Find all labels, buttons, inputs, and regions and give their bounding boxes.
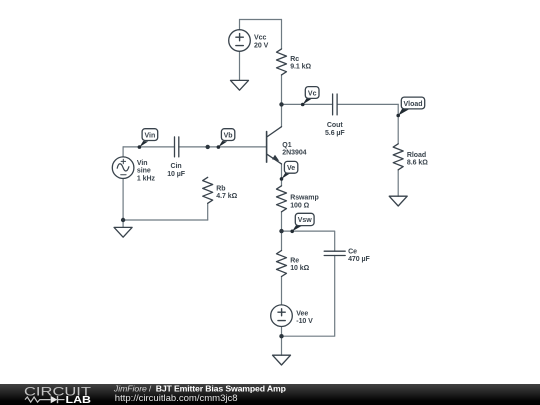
node flag Vc	[301, 87, 319, 107]
svg-text:10 µF: 10 µF	[167, 171, 186, 178]
svg-text:Vb: Vb	[224, 132, 233, 139]
ground under Rload	[389, 196, 407, 206]
capacitor Cout	[333, 94, 338, 115]
svg-text:Ve: Ve	[287, 165, 295, 172]
wire emitter to Rswamp	[281, 164, 283, 186]
node flag Vb	[217, 129, 235, 149]
wire Vin top to Cin	[123, 146, 174, 148]
footer bar	[0, 384, 540, 405]
node flag Ve	[280, 161, 298, 180]
node collector junction	[279, 102, 283, 106]
voltage source Vin sine	[112, 157, 134, 179]
CircuitLab logo schematic squiggle	[25, 396, 65, 403]
resistor Rswamp	[277, 186, 287, 212]
voltage source Vee	[271, 305, 293, 327]
wire Vsw node to Ce branch	[282, 231, 335, 251]
svg-text:Vcc: Vcc	[254, 35, 266, 42]
wire Cout to Vload corner	[337, 103, 398, 105]
svg-text:Vload: Vload	[403, 101, 422, 108]
svg-text:2N3904: 2N3904	[282, 149, 306, 156]
svg-text:Rload: Rload	[407, 152, 426, 159]
transistor Q1	[267, 127, 282, 164]
svg-text:10 kΩ: 10 kΩ	[290, 265, 309, 272]
node flag Vsw	[290, 213, 314, 233]
node flag Vin	[138, 129, 158, 149]
svg-text:Vin: Vin	[137, 160, 148, 167]
wire Vcc top stub	[239, 20, 241, 30]
ground under Vee	[273, 355, 291, 365]
capacitor Cin	[175, 137, 179, 157]
resistor Rb	[203, 177, 213, 203]
wire Vin source bottom	[122, 178, 124, 220]
svg-text:Vc: Vc	[308, 90, 317, 97]
wire Vin source top stub	[122, 147, 124, 157]
svg-text:1 kHz: 1 kHz	[137, 175, 156, 182]
svg-text:Rswamp: Rswamp	[290, 195, 319, 202]
ground under Vin	[114, 227, 132, 237]
svg-text:Vin: Vin	[145, 132, 156, 139]
svg-text:Rb: Rb	[216, 185, 225, 192]
wire base from Cin to Q1	[179, 146, 267, 148]
wire Vsw node down to Re	[281, 231, 283, 250]
node Vsw junction	[279, 229, 283, 233]
node flag Vload	[396, 97, 424, 117]
node bottom junction	[279, 334, 283, 338]
svg-text:5.6 µF: 5.6 µF	[325, 130, 345, 137]
ground under Vcc	[231, 80, 249, 90]
svg-text:Rc: Rc	[290, 56, 299, 63]
wire Vee bottom to node	[281, 327, 283, 337]
wire bottom-left horizontal	[123, 219, 208, 221]
wire collector node to Cout	[282, 103, 333, 105]
svg-text:20 V: 20 V	[254, 43, 269, 50]
wire Rc bottom to collector node	[281, 75, 283, 105]
svg-text:4.7 kΩ: 4.7 kΩ	[216, 193, 237, 200]
resistor Re	[277, 251, 287, 277]
svg-text:Q1: Q1	[282, 142, 291, 149]
wire top rail Vcc to Rc	[240, 19, 282, 21]
svg-text:Re: Re	[290, 258, 299, 265]
svg-text:Vee: Vee	[296, 311, 308, 318]
svg-text:-10 V: -10 V	[296, 318, 313, 325]
wire Rb bottom	[207, 203, 209, 220]
svg-text:sine: sine	[137, 168, 151, 175]
svg-text:Cout: Cout	[327, 122, 343, 129]
wire Re bottom to Vee	[281, 277, 283, 305]
wire Ce bottom to bottom node	[282, 256, 335, 337]
wire Rload bottom to ground	[397, 170, 399, 196]
svg-text:9.1 kΩ: 9.1 kΩ	[290, 64, 311, 71]
node Rb top junction	[206, 145, 210, 149]
wire bottom node to ground	[281, 336, 283, 355]
svg-text:Cin: Cin	[171, 163, 182, 170]
wire Vcc bottom to ground	[239, 52, 241, 81]
svg-text:Vsw: Vsw	[298, 217, 313, 224]
capacitor Ce	[324, 251, 345, 255]
voltage source Vcc	[229, 30, 251, 52]
node ground-left junction	[121, 218, 125, 222]
wire Vload corner down to Rload	[397, 104, 399, 143]
svg-text:100 Ω: 100 Ω	[290, 203, 309, 210]
wire Rc top	[281, 20, 283, 49]
wire Vin ground stub	[122, 220, 124, 227]
resistor Rload	[393, 144, 403, 170]
resistor Rc	[277, 49, 287, 75]
svg-text:Ce: Ce	[348, 249, 357, 256]
svg-text:8.6 kΩ: 8.6 kΩ	[407, 160, 428, 167]
wire collector vertical into Q1	[281, 104, 283, 126]
svg-text:470 µF: 470 µF	[348, 256, 370, 263]
wire Rswamp to Vsw node	[281, 212, 283, 231]
